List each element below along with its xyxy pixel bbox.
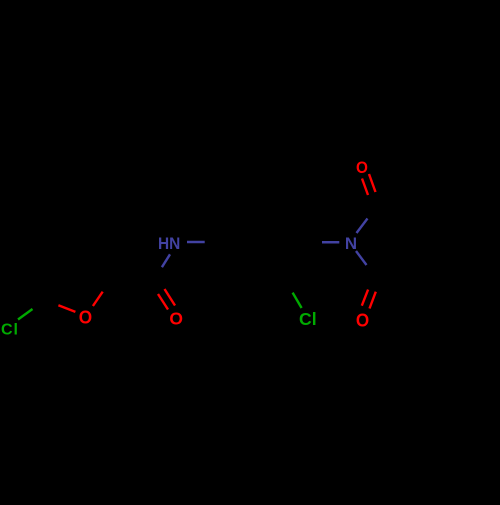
svg-text:O: O	[169, 309, 183, 329]
imide upper C=O line 2 red half	[369, 174, 376, 192]
bond Cl-CH2 green half	[18, 309, 33, 320]
svg-text:Cl: Cl	[1, 321, 19, 338]
bond C5-O red half	[58, 305, 75, 312]
svg-text:N: N	[345, 234, 357, 253]
svg-text:O: O	[79, 307, 92, 328]
amide C=O double bond line 2 red half	[165, 289, 176, 306]
svg-text:Cl: Cl	[299, 309, 317, 329]
imide upper C=O line 1 red half	[362, 179, 368, 196]
bond imide N-C lower blue half	[356, 251, 367, 265]
amide C=O double bond line 1 red half	[158, 294, 168, 310]
imide lower C=O line 1 red half	[362, 290, 368, 306]
imide lower C=O line 2 red half	[370, 292, 376, 309]
bond O-C2 red half	[93, 292, 103, 306]
bond aryl-Cl green half	[293, 293, 302, 308]
bond imide N-C upper blue half	[357, 219, 368, 234]
svg-text:HN: HN	[158, 234, 180, 253]
svg-text:O: O	[356, 310, 369, 331]
svg-text:O: O	[356, 158, 368, 177]
bond amide N-aryl blue half	[187, 241, 205, 244]
bond amide N-C carbonyl blue half	[162, 254, 170, 267]
bond aryl-N blue half	[322, 241, 339, 244]
